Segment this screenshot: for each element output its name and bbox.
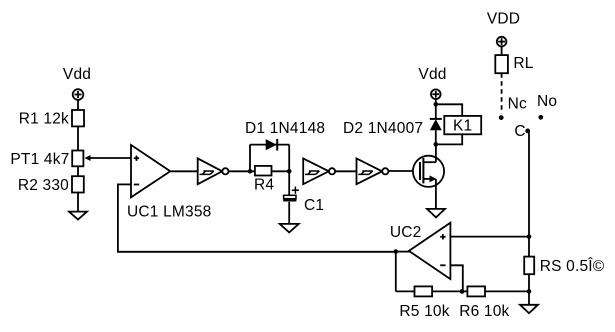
op-amp UC2: [409, 223, 451, 279]
diode D1: [266, 139, 278, 151]
svg-text:Vdd: Vdd: [418, 66, 446, 83]
svg-text:VDD: VDD: [487, 11, 520, 28]
ground (left rail): [69, 212, 87, 220]
wire VDD to RL: [501, 46, 503, 55]
resistor RS: [524, 257, 534, 275]
node B junction: [287, 169, 292, 174]
svg-text:D1 1N4148: D1 1N4148: [245, 120, 325, 137]
wire R5 to R6: [432, 290, 467, 292]
svg-text:RL: RL: [513, 55, 533, 72]
svg-text:UC1 LM358: UC1 LM358: [127, 204, 212, 221]
wire D2 to drain junction: [435, 130, 437, 145]
node D2 top junction: [434, 102, 439, 107]
wire dashed RL to Nc: [501, 73, 503, 113]
wire R1 to PT1: [77, 126, 79, 150]
wire inverter3 to gate: [388, 170, 420, 172]
power symbol VDD contact: [497, 37, 507, 47]
wire RS junction to ground: [528, 291, 530, 304]
schmitt inverter 3: [357, 159, 389, 185]
wire node B to C1: [288, 171, 290, 196]
svg-text:Nc: Nc: [508, 96, 527, 113]
wire UC1 - input down: [117, 184, 119, 252]
wire node A up: [249, 145, 251, 172]
svg-text:R4: R4: [254, 177, 274, 194]
node A junction: [248, 169, 253, 174]
power symbol Vdd relay: [431, 89, 441, 99]
wire PT1 wiper to UC1 + input: [89, 157, 131, 159]
wire UC1 output: [170, 170, 197, 172]
power symbol Vdd left: [73, 89, 84, 100]
wire UC2 output down: [395, 252, 397, 292]
wiper arrow PT1: [85, 155, 91, 161]
wire UC2 - input: [450, 265, 462, 291]
capacitor C1: [283, 187, 299, 201]
svg-text:K1: K1: [453, 117, 472, 134]
wire K1 top: [436, 104, 462, 116]
wire C down to RS branch: [528, 132, 530, 236]
schmitt inverter 2: [303, 159, 335, 185]
wire PT1 to R2: [77, 166, 79, 176]
svg-text:R6 10k: R6 10k: [459, 303, 509, 320]
wire Vdd to R1: [77, 100, 79, 111]
wire C1 to ground: [288, 202, 290, 224]
svg-text:PT1 4k7: PT1 4k7: [10, 151, 69, 168]
node RS top junction: [527, 234, 532, 239]
resistor R1: [72, 110, 84, 126]
svg-text:R1 12k: R1 12k: [19, 111, 69, 128]
ground (RS): [520, 305, 538, 313]
wire inverter2 to inverter3: [335, 170, 356, 172]
wire inverter1 to node A: [229, 170, 251, 172]
svg-text:No: No: [537, 93, 557, 110]
svg-text:C1: C1: [304, 197, 324, 214]
resistor R6: [467, 286, 485, 296]
resistor R4: [255, 166, 272, 176]
ground (MOSFET source): [427, 209, 445, 218]
wire RS to bottom junction: [528, 274, 530, 291]
transistor Q1 MOSFET: [413, 144, 444, 209]
svg-text:D2 1N4007: D2 1N4007: [343, 120, 423, 137]
node UC2 output junction: [394, 249, 399, 254]
diode D2: [430, 119, 442, 130]
wire UC2 + input: [450, 236, 529, 238]
node Nc contact: [499, 115, 504, 120]
wire D1 branch down: [288, 145, 290, 172]
svg-text:R5 10k: R5 10k: [399, 303, 449, 320]
node D2 bottom junction: [434, 142, 439, 147]
wire output to R5: [396, 290, 415, 292]
ground (C1): [280, 224, 299, 233]
node C contact: [525, 129, 530, 134]
relay coil K1: [444, 116, 481, 134]
wire R6 to RS junction: [485, 290, 529, 292]
wire R2 to ground: [77, 193, 79, 212]
node No contact: [538, 115, 543, 120]
wire node A to node B: [250, 170, 289, 172]
svg-text:C: C: [514, 123, 525, 140]
wire junction to RS: [528, 237, 530, 257]
wire K1 bottom: [436, 134, 462, 144]
wire Vdd to D2: [435, 99, 437, 119]
node RS bottom junction: [527, 289, 532, 294]
wire feedback bottom: [117, 251, 396, 253]
op-amp UC1: [131, 145, 170, 197]
potentiometer PT1: [72, 151, 83, 167]
wire D1 branch top: [250, 144, 289, 146]
schmitt inverter 1: [198, 158, 229, 184]
resistor R5: [415, 286, 433, 296]
wire UC1 - input: [118, 183, 131, 185]
svg-text:RS 0.5Î©: RS 0.5Î©: [540, 258, 605, 275]
svg-text:Vdd: Vdd: [63, 66, 91, 83]
wire UC2 output: [396, 251, 410, 253]
svg-text:R2 330: R2 330: [18, 177, 69, 194]
resistor RL: [495, 55, 508, 73]
node R5 R6 junction: [460, 289, 465, 294]
svg-text:UC2: UC2: [390, 224, 422, 241]
resistor R2: [72, 176, 84, 192]
